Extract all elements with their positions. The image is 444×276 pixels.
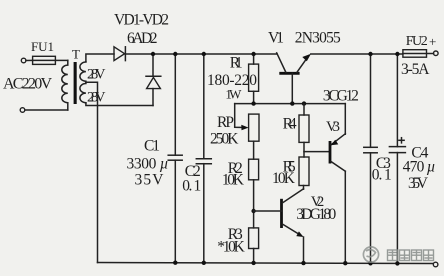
potentiometer RP — [235, 104, 259, 160]
transistor V3 — [304, 104, 345, 263]
svg-text:+: + — [429, 34, 436, 49]
svg-text:28V: 28V — [87, 67, 106, 83]
capacitor C2 — [196, 54, 211, 263]
diode VD1 — [114, 47, 125, 61]
svg-text:10K: 10K — [272, 170, 296, 187]
svg-text:V3: V3 — [326, 119, 340, 135]
junction — [395, 261, 399, 265]
wire base drive — [235, 103, 346, 105]
svg-text:35V: 35V — [408, 175, 429, 192]
junction — [251, 261, 255, 265]
junction — [368, 52, 372, 56]
wire — [26, 59, 33, 61]
svg-text:FU2: FU2 — [406, 34, 428, 49]
svg-text:RP: RP — [217, 114, 234, 131]
junction — [395, 52, 399, 56]
wire bottom rail — [98, 263, 434, 264]
junction — [173, 52, 177, 56]
svg-text:35V: 35V — [135, 172, 165, 189]
junction — [151, 52, 155, 56]
wire center tap — [86, 82, 98, 262]
terminal input bottom — [20, 108, 25, 113]
svg-text:1W: 1W — [225, 87, 242, 102]
transistor V2 — [254, 186, 304, 263]
resistor R3 — [249, 228, 259, 263]
watermark logo — [363, 247, 378, 262]
capacitor C3 — [364, 54, 377, 263]
svg-text:R4: R4 — [283, 116, 297, 133]
fuse FU1 — [33, 56, 56, 64]
svg-text:2N3055: 2N3055 — [295, 30, 341, 47]
junction — [251, 101, 255, 105]
wire secondary bottom — [86, 103, 153, 106]
wire — [25, 109, 68, 111]
svg-text:AC220V: AC220V — [3, 76, 52, 93]
svg-text:3-5A: 3-5A — [401, 61, 430, 78]
svg-text:28V: 28V — [87, 90, 106, 106]
junction — [202, 261, 206, 265]
capacitor C1 — [168, 54, 182, 263]
svg-text:*10K: *10K — [217, 239, 245, 256]
fuse FU2 — [403, 50, 434, 58]
junction — [301, 261, 305, 265]
junction — [251, 209, 255, 213]
wire secondary top to rail — [86, 54, 114, 62]
junction — [173, 261, 177, 265]
transformer T core — [74, 62, 77, 104]
watermark text — [388, 250, 434, 261]
wire top rail right — [311, 53, 403, 55]
terminal output minus — [433, 262, 438, 267]
terminal input top — [21, 58, 26, 63]
svg-text:470 µ: 470 µ — [403, 159, 436, 176]
wire top rail left — [125, 53, 277, 55]
transformer T primary winding — [62, 60, 68, 110]
svg-text:250K: 250K — [210, 131, 239, 148]
transformer T secondary winding — [80, 62, 86, 103]
svg-text:VD1-VD2: VD1-VD2 — [114, 12, 169, 29]
transistor V1 — [277, 53, 311, 104]
svg-text:10K: 10K — [222, 171, 245, 188]
junction — [290, 101, 294, 105]
svg-text:3DG180: 3DG180 — [296, 206, 336, 223]
resistor R2 — [249, 159, 259, 228]
svg-text:3CG12: 3CG12 — [323, 88, 359, 105]
diode VD2 — [146, 54, 161, 106]
svg-text:C1: C1 — [144, 138, 160, 155]
svg-text:0. 1: 0. 1 — [182, 178, 201, 195]
resistor R5 — [299, 157, 309, 186]
junction — [368, 261, 372, 265]
svg-text:0. 1: 0. 1 — [372, 167, 392, 184]
junction — [343, 261, 347, 265]
junction — [302, 101, 306, 105]
junction — [202, 52, 206, 56]
resistor R1 — [249, 54, 259, 104]
svg-text:FU1: FU1 — [31, 39, 54, 54]
resistor R4 — [299, 104, 309, 157]
svg-text:6AD2: 6AD2 — [127, 30, 158, 47]
svg-text:T: T — [72, 47, 80, 62]
terminal output plus — [434, 51, 439, 56]
svg-text:R1: R1 — [230, 55, 243, 72]
capacitor C4 — [389, 54, 405, 263]
svg-text:3300 µ: 3300 µ — [127, 156, 169, 173]
svg-text:V1: V1 — [268, 30, 284, 47]
wire — [55, 59, 67, 61]
junction — [251, 52, 255, 56]
